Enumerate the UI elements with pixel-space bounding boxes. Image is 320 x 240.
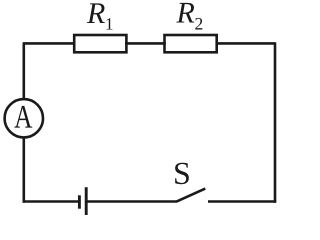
battery long plate (85, 187, 88, 215)
label R1 subscript 1 (106, 18, 112, 29)
wire bottom-right to switch (208, 200, 276, 203)
label R2 italic R (176, 3, 194, 23)
resistor R1 (74, 35, 126, 52)
ammeter letter A (14, 106, 32, 128)
wire right vertical (274, 42, 277, 203)
resistor R2 (165, 35, 217, 52)
label S switch (175, 163, 189, 185)
wire between R1 and R2 (125, 42, 166, 45)
wire left vertical upper (22, 43, 25, 98)
switch S lever (176, 189, 205, 202)
wire top-right horizontal (216, 42, 276, 45)
ammeter U1 circle (5, 99, 43, 137)
label R2 subscript 2 (195, 18, 202, 30)
wire left vertical lower (22, 138, 25, 203)
wire battery to bottom-left corner (23, 200, 80, 203)
label R1 italic R (87, 3, 105, 23)
wire top-left horizontal (23, 42, 76, 45)
wire switch to battery (86, 200, 176, 203)
battery short plate (78, 195, 81, 208)
